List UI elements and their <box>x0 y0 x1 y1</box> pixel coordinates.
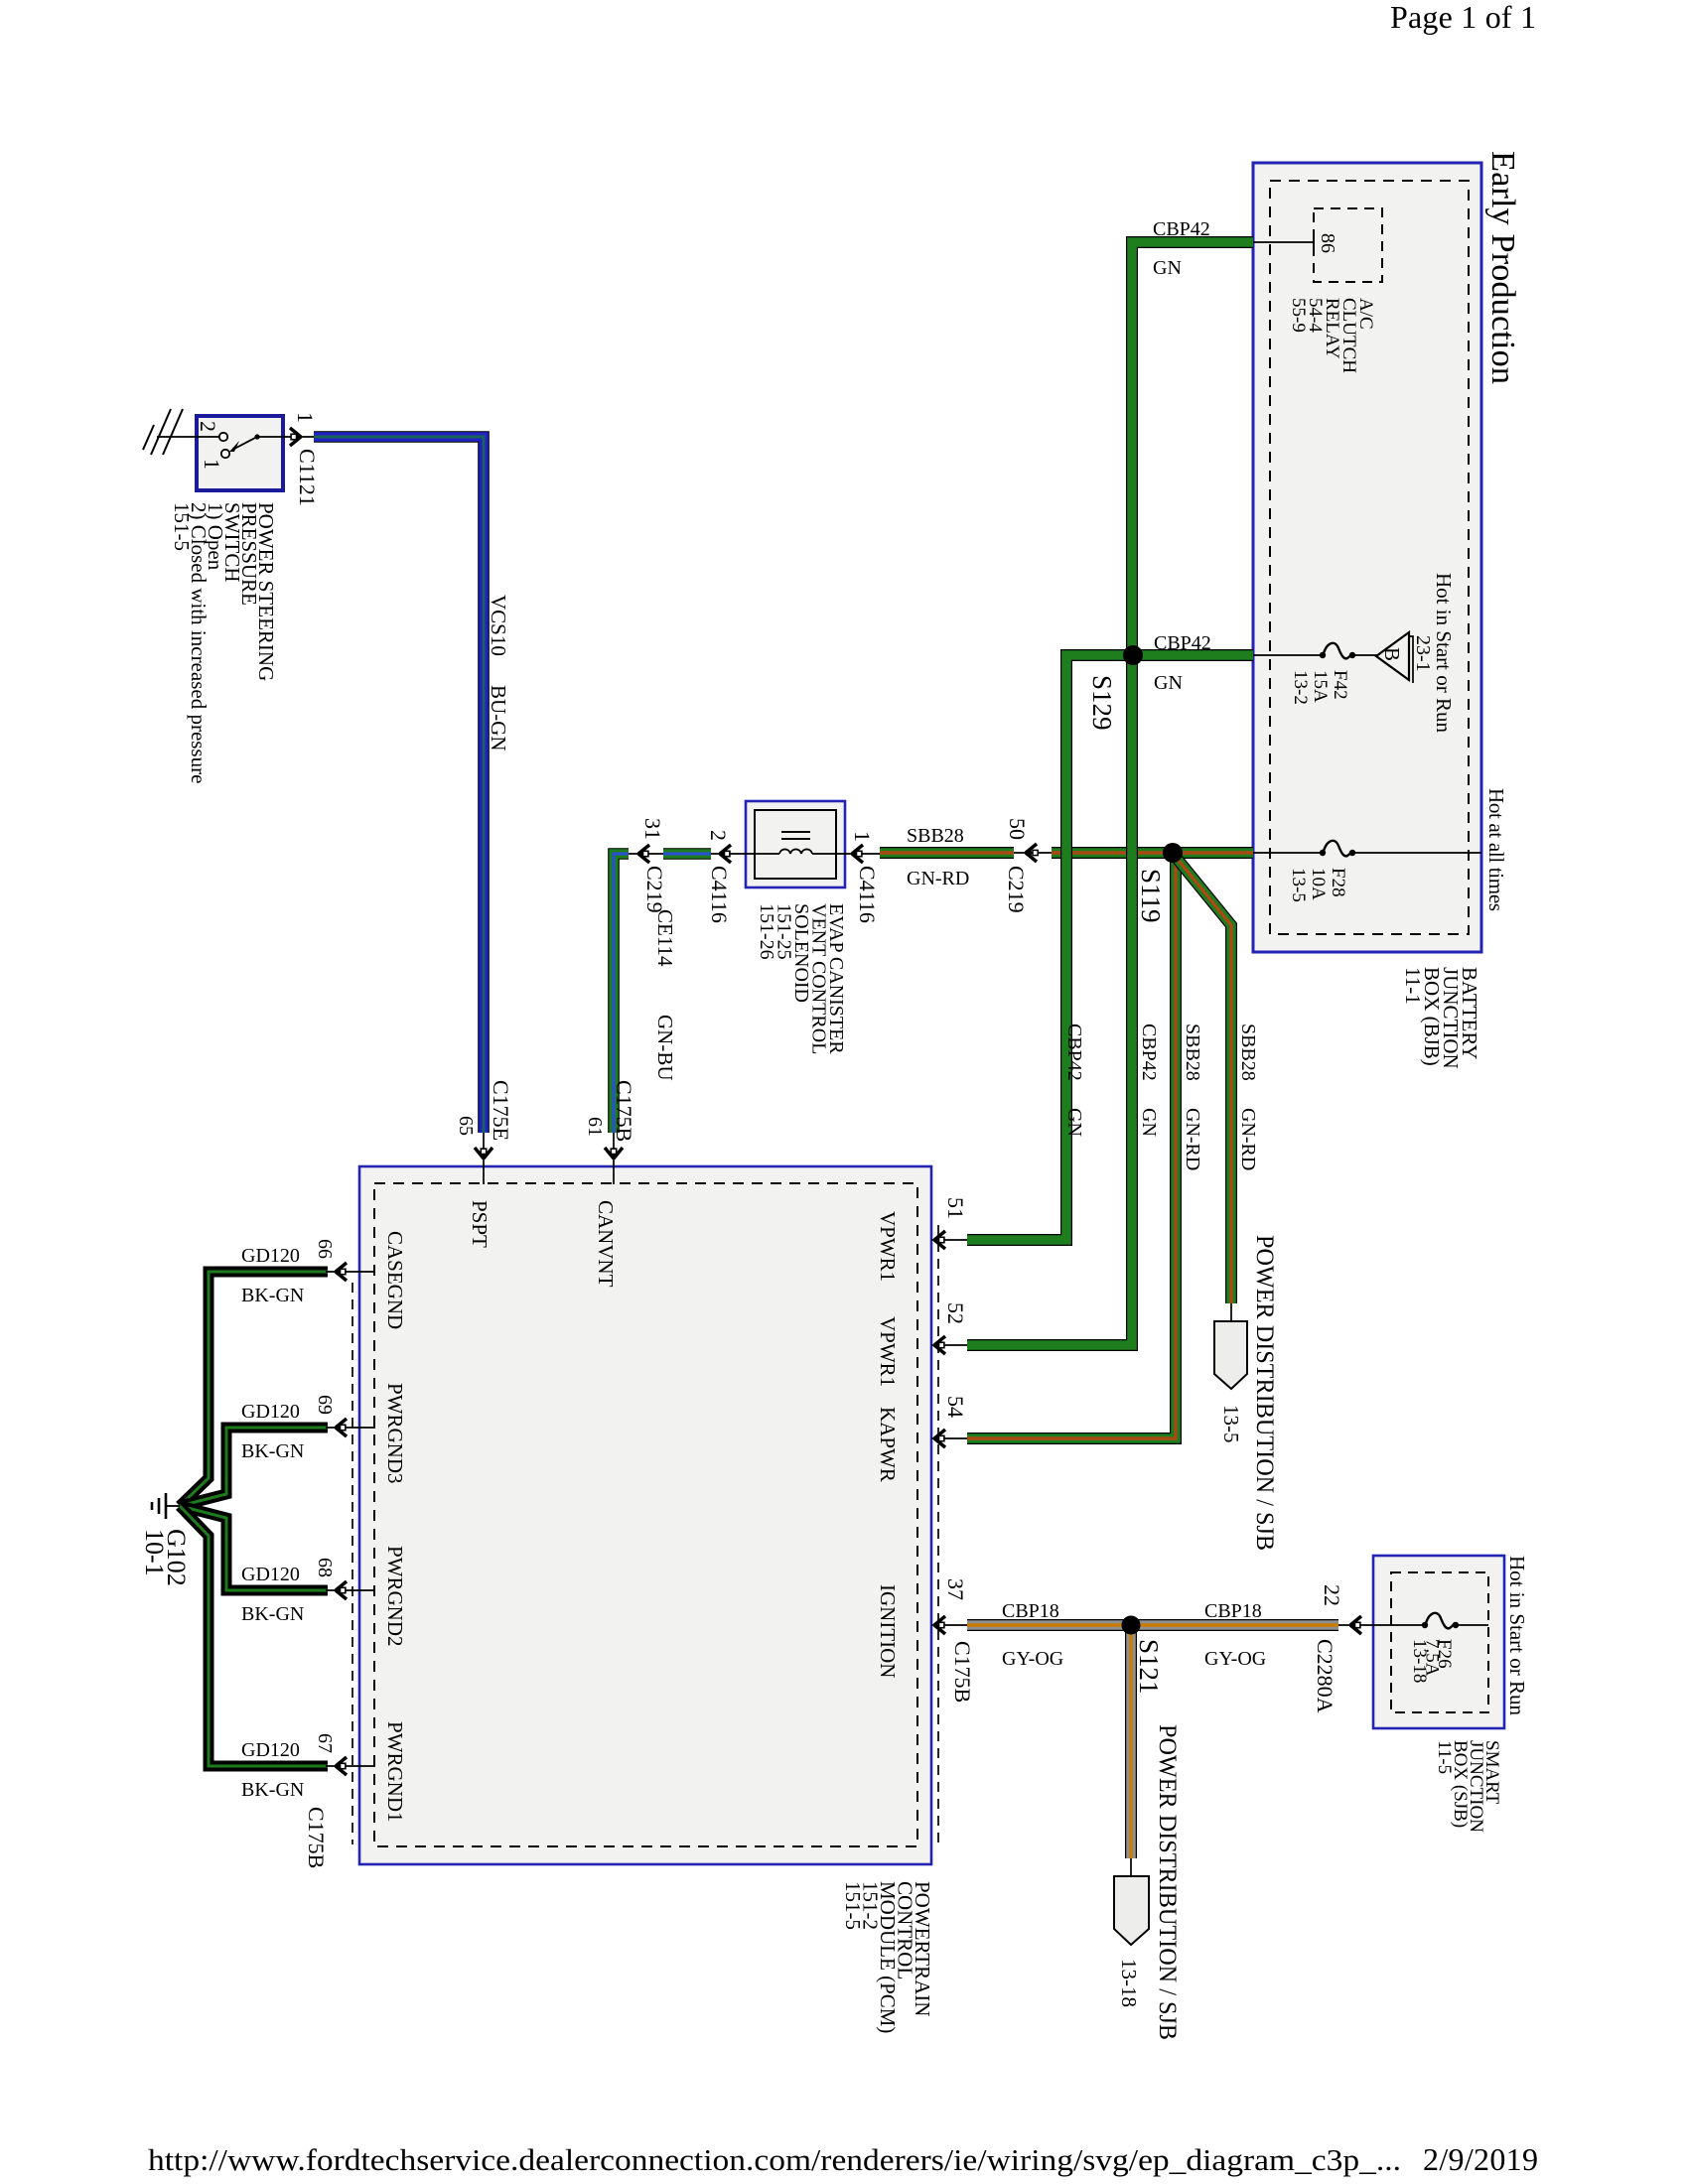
svg-text:1: 1 <box>293 412 318 423</box>
svg-text:PSPT: PSPT <box>468 1200 492 1248</box>
PCM pin 66 arrow <box>314 1239 375 1281</box>
svg-text:http://www.fordtechservice.dea: http://www.fordtechservice.dealerconnect… <box>148 2142 1401 2177</box>
svg-text:S129: S129 <box>1087 675 1117 731</box>
svg-text:52: 52 <box>943 1302 968 1324</box>
svg-text:IGNITION: IGNITION <box>876 1584 900 1678</box>
wire GD120 BK-GN (PCM pin 68 PWRGND2 to G102) <box>180 1506 328 1590</box>
svg-text:BK-GN: BK-GN <box>241 1779 304 1801</box>
svg-text:GD120: GD120 <box>241 1401 300 1423</box>
svg-text:C175E: C175E <box>489 1080 513 1141</box>
svg-text:1: 1 <box>850 831 875 842</box>
svg-text:GD120: GD120 <box>241 1245 300 1267</box>
svg-text:61: 61 <box>584 1117 606 1137</box>
wire GN-BU segment between C219 and C4116 <box>663 848 711 860</box>
PCM pin 54 arrow <box>931 1396 968 1447</box>
svg-text:Hot at all times: Hot at all times <box>1484 788 1508 911</box>
svg-text:GN: GN <box>1154 672 1183 694</box>
svg-text:C4116: C4116 <box>855 866 880 923</box>
svg-text:BU-GN: BU-GN <box>487 685 510 751</box>
label wire CBP42 GN (vertical to pin 52) <box>1138 1024 1160 1137</box>
svg-text:SBB28: SBB28 <box>1182 1024 1203 1081</box>
PCM pin 68 arrow <box>314 1558 375 1599</box>
svg-text:GD120: GD120 <box>241 1739 300 1761</box>
svg-text:51: 51 <box>943 1197 968 1219</box>
svg-text:S119: S119 <box>1136 869 1166 923</box>
wire: thin lead BJB edge to relay pin 86 <box>1253 241 1314 243</box>
chassis ground symbol at switch <box>143 409 183 455</box>
svg-text:67: 67 <box>314 1733 336 1753</box>
svg-text:B: B <box>1380 647 1404 661</box>
svg-text:CBP42: CBP42 <box>1153 218 1210 240</box>
svg-text:CANVNT: CANVNT <box>594 1200 618 1288</box>
label wire GD120 BK-GN (pin 68) <box>241 1564 304 1625</box>
svg-text:CBP18: CBP18 <box>1002 1600 1059 1622</box>
svg-text:CBP42: CBP42 <box>1138 1024 1160 1081</box>
svg-text:22: 22 <box>1320 1584 1344 1606</box>
svg-text:CBP18: CBP18 <box>1204 1600 1262 1622</box>
wire GD120 BK-GN (PCM pin 67 PWRGND1 to G102) <box>180 1506 328 1766</box>
label wire GD120 BK-GN (pin 67) <box>241 1739 304 1801</box>
svg-text:C4116: C4116 <box>707 866 732 923</box>
PCM pin 51 arrow <box>931 1197 968 1249</box>
svg-text:69: 69 <box>314 1395 336 1415</box>
connector C2280A pin 22 arrow <box>1313 1584 1361 1713</box>
svg-text:C219: C219 <box>642 866 667 913</box>
relay label A/C CLUTCH RELAY <box>1288 298 1376 373</box>
svg-text:GN: GN <box>1153 257 1182 279</box>
A/C clutch relay box (dashed) <box>1314 208 1382 282</box>
svg-text:POWER DISTRIBUTION / SJB: POWER DISTRIBUTION / SJB <box>1154 1724 1181 2040</box>
fuse F26 7.5A <box>1336 1613 1488 1683</box>
connector bracket C175B left <box>352 1283 353 1844</box>
svg-text:S121: S121 <box>1134 1639 1164 1695</box>
relay pin 86 <box>1314 233 1338 253</box>
label wire CBP42 GN (top) <box>1153 218 1210 279</box>
splice S119 <box>1163 843 1183 863</box>
svg-text:C219: C219 <box>1004 866 1029 913</box>
PCM pin 69 arrow <box>314 1395 375 1436</box>
wire GD120 BK-GN (PCM pin 66 CASEGND to G102) <box>180 1272 328 1506</box>
svg-text:37: 37 <box>943 1578 968 1600</box>
svg-text:C1121: C1121 <box>295 449 320 506</box>
svg-text:POWER DISTRIBUTION / SJB: POWER DISTRIBUTION / SJB <box>1251 1235 1278 1551</box>
label wire SBB28 GN-RD (vertical to pin 54) <box>1182 1024 1203 1170</box>
svg-text:GY-OG: GY-OG <box>1002 1648 1063 1670</box>
svg-text:GN-RD: GN-RD <box>1237 1108 1259 1170</box>
svg-text:2/9/2019: 2/9/2019 <box>1423 2141 1538 2177</box>
svg-text:BK-GN: BK-GN <box>241 1285 304 1306</box>
svg-text:C2280A: C2280A <box>1313 1639 1337 1713</box>
connector C219 pin 50 arrow <box>1004 818 1052 913</box>
svg-text:GD120: GD120 <box>241 1564 300 1585</box>
svg-text:C175B: C175B <box>304 1807 329 1868</box>
fuse F42 15A <box>1253 643 1378 705</box>
svg-text:50: 50 <box>1005 818 1030 840</box>
PCM pin 65 arrow (top) <box>455 1080 513 1184</box>
battery feed triangle B 23-1 <box>1376 632 1434 683</box>
label wire CBP18 GY-OG (right) <box>1204 1600 1266 1670</box>
power distribution 13-18 pentagon <box>1114 1858 1149 2007</box>
wire CBP18 GY-OG vertical (S121 down to power distribution) <box>1125 1625 1137 1858</box>
label wire GD120 BK-GN (pin 69) <box>241 1401 304 1462</box>
svg-text:SBB28: SBB28 <box>1237 1024 1259 1081</box>
svg-text:66: 66 <box>314 1239 336 1259</box>
power distribution 13-5 pentagon <box>1214 1303 1247 1443</box>
svg-text:CBP42: CBP42 <box>1154 632 1211 654</box>
svg-text:Hot in Start or Run: Hot in Start or Run <box>1505 1556 1529 1716</box>
splice S129 <box>1123 645 1143 665</box>
wire CBP42 GN (BJB fuse F42 through S129 to PCM pin 51) <box>967 655 1253 1240</box>
svg-text:65: 65 <box>455 1116 477 1136</box>
svg-text:GY-OG: GY-OG <box>1204 1648 1266 1670</box>
wire CBP42 GN (BJB pin 86 down through S129 to PCM pin 52) <box>967 242 1253 1345</box>
battery junction box BJB outline <box>1253 163 1481 952</box>
svg-text:PWRGND1: PWRGND1 <box>383 1721 407 1823</box>
thin lead switch to connector C1121 <box>281 436 314 438</box>
connector C1121 arrow <box>290 412 320 506</box>
svg-text:C175B: C175B <box>950 1641 975 1703</box>
svg-text:CBP42: CBP42 <box>1063 1024 1085 1081</box>
label wire CBP42 GN (vertical to pin 51) <box>1063 1024 1085 1137</box>
svg-text:CASEGND: CASEGND <box>383 1231 407 1329</box>
ground G102 symbol <box>152 1493 180 1519</box>
power steering pressure switch box <box>197 416 283 490</box>
svg-text:GN-RD: GN-RD <box>907 868 969 889</box>
svg-text:VPWR1: VPWR1 <box>876 1316 900 1387</box>
wire SBB28 GN-RD (S119 down to PCM pin 54 KAPWR) <box>967 855 1176 1438</box>
PCM pin 67 arrow <box>304 1733 375 1868</box>
svg-text:SBB28: SBB28 <box>907 825 964 847</box>
svg-text:BK-GN: BK-GN <box>241 1603 304 1625</box>
label wire CE114 GN-BU <box>653 909 677 1081</box>
svg-text:VPWR1: VPWR1 <box>876 1211 900 1282</box>
connector C4116 pin 2 arrow <box>706 830 755 923</box>
PCM pin 52 arrow <box>931 1302 968 1354</box>
svg-text:13-18: 13-18 <box>1117 1959 1141 2007</box>
wire SBB28 GN-RD horizontal right segment (C219 to BJB through S119) <box>1052 847 1253 859</box>
switch internals <box>175 421 283 470</box>
svg-text:31: 31 <box>640 818 665 840</box>
splice S121 <box>1122 1616 1141 1635</box>
svg-text:Hot in Start or Run: Hot in Start or Run <box>1432 573 1456 734</box>
svg-text:CE114: CE114 <box>653 909 677 967</box>
svg-text:1: 1 <box>200 459 224 470</box>
label wire SBB28 GN-RD (vertical to 13-5) <box>1237 1024 1259 1170</box>
svg-text:2: 2 <box>706 830 731 841</box>
svg-text:54: 54 <box>943 1396 968 1418</box>
label wire VCS10 BU-GN <box>487 595 510 751</box>
svg-text:KAPWR: KAPWR <box>876 1407 900 1482</box>
solenoid coil symbol <box>755 832 836 854</box>
svg-text:Page 1 of 1: Page 1 of 1 <box>1390 0 1536 35</box>
svg-text:GN-BU: GN-BU <box>653 1015 677 1081</box>
svg-text:BK-GN: BK-GN <box>241 1440 304 1462</box>
wire CBP18 GY-OG horizontal (PCM pin 37 to SJB through S121) <box>967 1619 1338 1631</box>
svg-text:GN: GN <box>1063 1108 1085 1137</box>
wire SBB28 GN-RD horizontal left segment (solenoid to C219) <box>880 847 1014 859</box>
connector C219 pin 31 arrow <box>629 818 667 913</box>
svg-text:86: 86 <box>1317 233 1338 253</box>
wire CE114 GN-BU (PCM pin 61 up to C219) <box>614 854 629 1133</box>
wire SBB28 GN-RD (S119 diagonal down to power distribution 13-5) <box>1175 856 1231 1303</box>
connector C4116 pin 1 arrow <box>836 831 880 923</box>
EVAP canister vent control solenoid box <box>746 801 845 887</box>
BJB label <box>1401 967 1481 1069</box>
PCM pin 37 arrow <box>931 1578 975 1703</box>
svg-text:PWRGND2: PWRGND2 <box>383 1546 407 1647</box>
svg-text:23-1: 23-1 <box>1412 635 1434 672</box>
svg-text:PWRGND3: PWRGND3 <box>383 1383 407 1484</box>
powertrain control module PCM box <box>359 1166 931 1864</box>
fuse F28 10A <box>1253 841 1481 902</box>
label wire SBB28 GN-RD (horizontal) <box>907 825 969 889</box>
wire VCS10 BU-GN (switch to PCM pin 65) <box>314 437 484 1133</box>
smart junction box SJB <box>1373 1556 1504 1728</box>
svg-text:68: 68 <box>314 1558 336 1577</box>
svg-text:Early Production: Early Production <box>1484 151 1521 384</box>
wire GD120 BK-GN (PCM pin 69 PWRGND3 to G102) <box>180 1428 328 1506</box>
label wire CBP42 GN (at S129) <box>1154 632 1211 694</box>
label wire CBP18 GY-OG (left) <box>1002 1600 1063 1670</box>
PCM pin 61 arrow (top) <box>584 1080 636 1184</box>
label wire GD120 BK-GN (pin 66) <box>241 1245 304 1306</box>
svg-text:C175B: C175B <box>612 1080 636 1142</box>
svg-text:GN-RD: GN-RD <box>1182 1108 1203 1170</box>
svg-text:GN: GN <box>1138 1108 1160 1137</box>
svg-text:2: 2 <box>196 421 220 432</box>
svg-text:13-5: 13-5 <box>1219 1405 1243 1443</box>
connector bracket C175B right <box>937 1225 939 1844</box>
svg-text:VCS10: VCS10 <box>487 595 510 656</box>
